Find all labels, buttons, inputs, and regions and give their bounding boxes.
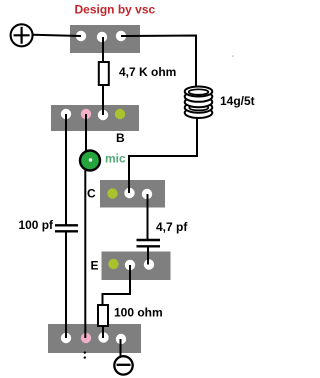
hole TS4-2 xyxy=(125,260,135,270)
hole TS5-1 xyxy=(61,333,71,343)
hole TS4-3 xyxy=(144,259,154,269)
battery terminal - xyxy=(114,356,132,374)
svg-text:mic: mic xyxy=(105,152,126,166)
wire: TS2-2 down to mic xyxy=(85,114,87,151)
faint speck xyxy=(232,55,234,57)
svg-text:B: B xyxy=(116,131,125,145)
svg-text:4,7 K ohm: 4,7 K ohm xyxy=(119,65,176,79)
dotted tail below TS5-2 xyxy=(84,351,86,353)
resistor R1 4,7K xyxy=(99,62,109,85)
svg-text:C: C xyxy=(87,187,96,201)
hole TS3-1 (green) xyxy=(107,188,117,198)
svg-text:E: E xyxy=(91,259,99,273)
wire: TS4-2 down-left to R2 xyxy=(103,265,131,305)
hole TS5-4 xyxy=(116,334,126,344)
terminal strip TS2 (B row) xyxy=(51,105,139,131)
wire: TS1-3 right and down to coil L1 xyxy=(121,36,196,89)
hole TS1-2 xyxy=(97,32,107,42)
wire: coil L1 bottom to TS3-2 xyxy=(129,118,197,193)
capacitor C1 100pf plates xyxy=(55,224,78,226)
svg-text:4,7 pf: 4,7 pf xyxy=(156,220,188,234)
hole TS2-4 (green) xyxy=(115,109,125,119)
hole TS5-3 xyxy=(98,332,108,342)
wire: battery + to TS1-1 xyxy=(33,35,81,36)
capacitor C2 4,7pf plates xyxy=(137,239,161,241)
hole TS3-3 xyxy=(142,189,152,199)
svg-text:14g/5t: 14g/5t xyxy=(220,94,255,108)
hole TS2-3 xyxy=(98,110,108,120)
wire: mic down to TS5-2 xyxy=(84,170,86,338)
wire: TS1-2 down to R1 xyxy=(102,37,104,62)
coil L1 xyxy=(185,87,213,119)
terminal strip TS3 (C row) xyxy=(100,180,165,208)
hole TS3-2 xyxy=(124,188,134,198)
battery terminal + xyxy=(11,24,33,46)
microphone mic xyxy=(80,151,100,171)
hole TS2-1 xyxy=(61,109,71,119)
terminal strip TS5 (bottom) xyxy=(48,324,141,353)
wire: TS3-3 down to C2 (4,7pf) xyxy=(147,194,149,239)
hole TS2-2 (pink) xyxy=(81,109,91,119)
svg-text:100 ohm: 100 ohm xyxy=(114,306,163,320)
resistor R2 100 ohm xyxy=(98,305,108,326)
wire: R1 down to TS2-3 xyxy=(102,85,104,115)
wire: C2 down to TS4-3 xyxy=(147,247,149,265)
hole TS5-2 (pink) xyxy=(81,333,91,343)
wire: TS2-1 down to C1 (100pf) xyxy=(65,114,67,225)
hole TS4-1 (green) xyxy=(108,259,118,269)
hole TS1-3 xyxy=(116,31,126,41)
wire: TS5-4 down to battery - xyxy=(120,339,122,357)
terminal strip TS1 (top) xyxy=(70,25,140,53)
wire: R2 down to TS5-3 xyxy=(102,326,104,338)
svg-text:Design by vsc: Design by vsc xyxy=(75,3,156,17)
hole TS1-1 xyxy=(76,31,86,41)
svg-text:100 pf: 100 pf xyxy=(19,218,54,232)
terminal strip TS4 (E row) xyxy=(102,252,171,281)
wire: C1 down to TS5-1 xyxy=(65,232,67,339)
